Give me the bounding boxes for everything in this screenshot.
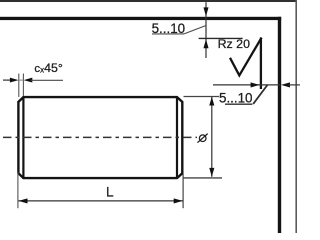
pin left chamfer edge line	[22, 97, 24, 178]
dimension c x 45: left tail line	[3, 79, 12, 81]
frame top border (thick)	[0, 17, 281, 20]
sheet top edge line	[0, 0, 297, 2]
dimension diameter: arrowhead down	[209, 168, 214, 177]
dimension diameter: arrowhead up	[209, 97, 214, 106]
svg-text:cx45°: cx45°	[34, 61, 62, 75]
dimension L: dimension line	[18, 200, 183, 202]
sheet right edge line	[295, 0, 297, 233]
svg-text:L: L	[106, 184, 114, 199]
pin outline with chamfered corners	[18, 97, 182, 178]
roughness symbol: top bar	[199, 37, 243, 39]
dimension c x 45: arrowhead right toward edge	[10, 78, 19, 83]
dimension L: right extension line	[182, 174, 184, 208]
dimension c x 45: arrowhead left toward chamfer	[24, 78, 33, 83]
dimension c x 45: connecting line between extension lines	[19, 79, 24, 81]
label diameter symbol: circle	[199, 135, 206, 142]
label diameter symbol: slash	[197, 134, 207, 143]
label 5...10 top: leader diagonal	[184, 26, 206, 34]
svg-text:5...10: 5...10	[219, 91, 253, 106]
roughness symbol: vertical right leg	[260, 38, 262, 89]
dimension 5...10 right: left line segment	[213, 84, 280, 86]
dimension 5...10 right: right line segment	[289, 84, 301, 86]
pin axis center line (dash-dot)	[3, 136, 197, 138]
dimension diameter: vertical dimension line	[211, 97, 213, 177]
svg-text:Rz 20: Rz 20	[218, 37, 250, 51]
pin right chamfer edge line	[176, 97, 178, 178]
dimension diameter: bottom extension line	[184, 177, 223, 179]
roughness symbol: check mark	[230, 38, 262, 76]
dimension diameter: top extension line	[184, 96, 220, 98]
dimension c x 45: right extension line	[22, 74, 24, 97]
dimension 5...10 top: arrowhead down at frame	[203, 7, 208, 16]
dimension c x 45: shelf line under text	[31, 79, 63, 81]
dimension 5...10 right: arrowhead left at frame	[281, 82, 290, 87]
frame right border (thick)	[278, 17, 281, 233]
label 5...10 top: shelf underline	[152, 33, 184, 35]
dimension 5...10 top: extension shaft	[205, 2, 207, 58]
label 5...10 right: shelf underline	[225, 103, 252, 105]
dimension L: arrowhead right	[174, 198, 183, 203]
label 5...10 right: leader diagonal	[253, 85, 267, 104]
dimension L: left extension line	[17, 172, 19, 208]
dimension 5...10 top: arrowhead up at Rz bar	[203, 39, 208, 48]
dimension c x 45: left extension line	[18, 74, 20, 98]
dimension 5...10 right: arrowhead right at symbol leg	[251, 82, 260, 87]
dimension L: arrowhead left	[19, 198, 28, 203]
